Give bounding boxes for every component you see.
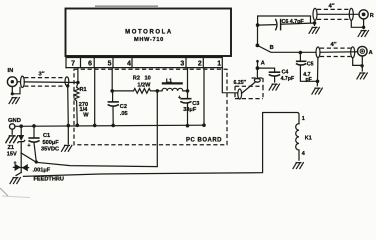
pin row strip [66, 56, 223, 58]
capacitor C4 [258, 68, 275, 72]
ground [9, 97, 20, 104]
capacitor C6 [258, 24, 276, 27]
ground [16, 173, 21, 176]
node shield gnd [313, 21, 317, 25]
wire shield to ground [12, 87, 20, 94]
resistor R2 [134, 89, 158, 94]
wire ground rail [15, 125, 204, 126]
wire [157, 90, 162, 92]
capacitor C3 [187, 91, 189, 99]
wire pin1 to coax [222, 68, 237, 93]
node A [256, 66, 260, 70]
capacitor C1 [32, 124, 36, 128]
wire pin7 [77, 68, 79, 83]
ground [269, 84, 280, 91]
wire B+ rail lower to K1 [24, 113, 300, 177]
wire [17, 81, 20, 83]
node C3 gnd [186, 124, 190, 128]
label PC BOARD [184, 134, 225, 144]
wire pin2 [203, 68, 205, 126]
zener Z1 [19, 124, 23, 128]
ground [11, 129, 13, 134]
wire row [112, 90, 133, 92]
module U1 MHW-710 [66, 9, 232, 57]
wire coax center [320, 51, 358, 54]
wire coax shield drop [66, 84, 69, 87]
wire coax center [317, 13, 359, 15]
node pin5 [110, 89, 114, 93]
wire R gnd [351, 19, 363, 29]
node pin7/R1 [76, 81, 80, 85]
resistor R1 [74, 83, 79, 126]
label box C6 [258, 16, 311, 25]
PC board dashed outline [74, 69, 227, 145]
wire pin3 [187, 68, 189, 91]
feedthru C .001 [20, 153, 22, 173]
node +feed [156, 89, 160, 93]
ground hatch near C1 [61, 145, 72, 152]
wire pin6 [94, 68, 96, 126]
wire coax center [24, 81, 78, 84]
connector A [358, 46, 368, 56]
node B [256, 44, 260, 48]
wire A-coax shield drop [316, 58, 319, 86]
node C5 [299, 51, 303, 55]
node pin3 [186, 89, 190, 93]
capacitor C2 [112, 91, 114, 102]
coax 3in shield [21, 76, 25, 87]
wire B diagonal [257, 45, 316, 52]
wire B+ rail upper [21, 91, 157, 167]
node C6 junction [256, 23, 260, 27]
wire A gnd [353, 56, 363, 71]
capacitor C5 [299, 53, 301, 62]
wire pin5 [111, 68, 113, 91]
ground [293, 162, 304, 169]
connector R [359, 10, 368, 19]
wire B vertical [257, 25, 259, 45]
